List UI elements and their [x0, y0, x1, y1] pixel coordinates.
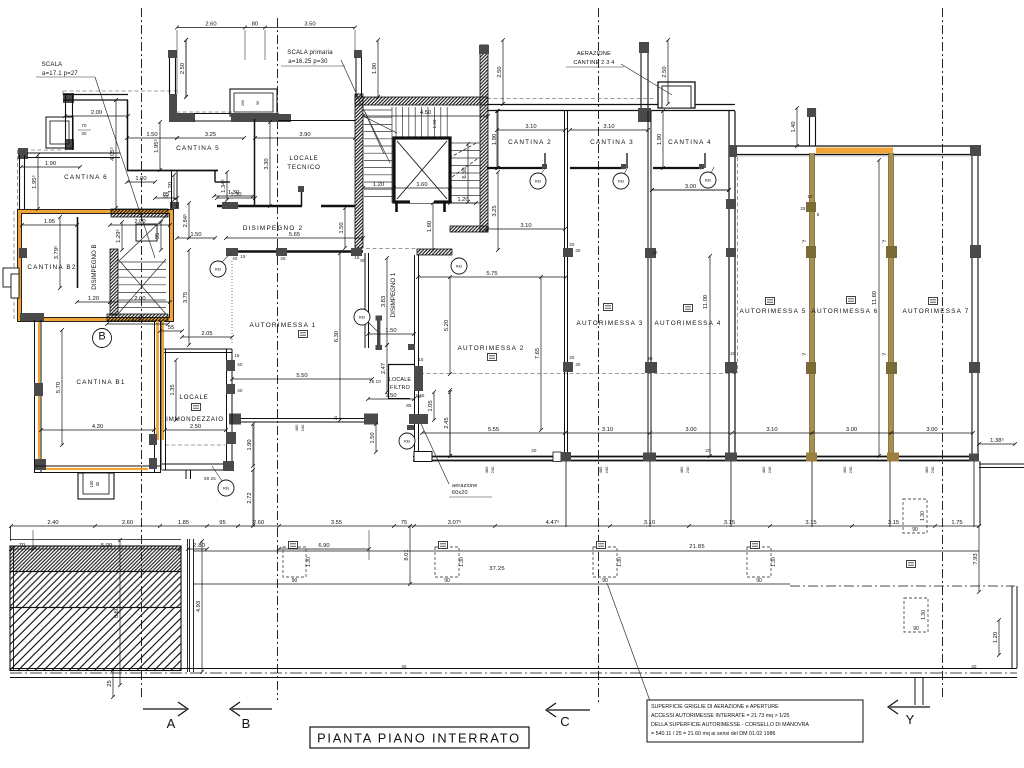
- svg-text:1.29⁵: 1.29⁵: [115, 229, 122, 243]
- grille icon autorimessa7: [929, 298, 938, 305]
- svg-text:3.10: 3.10: [602, 427, 613, 433]
- svg-text:3.79⁵: 3.79⁵: [53, 245, 60, 259]
- wall locale filtro bottom: [388, 398, 410, 400]
- stair treads top flight: [392, 107, 448, 138]
- pillar orange A6 mid1: [806, 246, 816, 258]
- pillar A4 wall upper: [645, 248, 656, 258]
- dim v 1.80 under elevator: [427, 201, 435, 252]
- wall locale filtro top: [388, 364, 414, 366]
- wall A5A6A7 garage top thin: [737, 155, 972, 157]
- svg-text:1.30: 1.30: [920, 511, 926, 521]
- grille icon autorimessa1: [299, 331, 308, 338]
- dim v 6.30 A1: [334, 251, 342, 422]
- svg-text:1.75: 1.75: [132, 318, 143, 324]
- wall immondezzaio right b: [231, 349, 233, 470]
- svg-text:1.30: 1.30: [921, 610, 927, 620]
- wall partition A5 left a: [728, 111, 730, 456]
- dim v 190 c2 small: [495, 109, 499, 170]
- svg-text:20: 20: [531, 448, 537, 453]
- svg-text:2.60: 2.60: [253, 520, 264, 526]
- svg-text:AUTORIMESSA 7: AUTORIMESSA 7: [903, 308, 970, 315]
- wall cantina5 bottom: [127, 170, 218, 172]
- wall cantina5 right lower b: [176, 171, 178, 208]
- dim garage 5.55 chain: [420, 427, 975, 435]
- stair B diagonal a: [118, 259, 166, 314]
- svg-text:LOCALE: LOCALE: [389, 377, 412, 383]
- pillar orange A6 mid2: [806, 362, 816, 374]
- svg-text:7⁵: 7⁵: [802, 239, 807, 244]
- pillar wall left mid: [65, 139, 74, 150]
- pillar immondezzaio right 2: [226, 384, 235, 394]
- dim v 1.90 right immond: [247, 422, 255, 468]
- svg-text:LOCALE: LOCALE: [289, 155, 318, 162]
- wall upper thin over tecnico: [278, 120, 355, 122]
- svg-text:15: 15: [240, 254, 246, 259]
- svg-text:90: 90: [912, 527, 918, 533]
- dashed envelope left upper: [62, 91, 64, 96]
- dim 1.20 elevator right: [448, 197, 478, 205]
- svg-text:B: B: [242, 716, 251, 731]
- pillar immondezzaio corner: [223, 461, 234, 471]
- stair B diagonal b: [118, 259, 166, 314]
- dim 1.38 right: [977, 437, 1017, 446]
- dim v 2.47 filtro: [381, 343, 389, 394]
- svg-text:Y: Y: [906, 712, 915, 727]
- svg-text:1.95⁵: 1.95⁵: [153, 139, 160, 153]
- pillar right of cantina5 wall: [170, 202, 179, 209]
- svg-text:1.90: 1.90: [657, 134, 663, 145]
- wall corridor top right piece: [321, 205, 355, 207]
- dim v 5.60 ramp: [114, 538, 122, 687]
- pillar cantinaB1 right bottom: [149, 458, 157, 469]
- grille icon box1: [439, 542, 448, 549]
- REI circle cantina2: [530, 173, 546, 189]
- svg-text:2.00: 2.00: [91, 110, 102, 116]
- svg-text:1.34⁵: 1.34⁵: [220, 179, 227, 193]
- ramp hatched band 1 (steep dense): [10, 546, 181, 572]
- dim ramp 70/5.00: [9, 543, 182, 551]
- svg-text:1.50: 1.50: [339, 222, 345, 233]
- stair B left wall hatched: [110, 249, 118, 315]
- grille icon autorimessa4: [684, 305, 693, 312]
- elevator shaft U1: [394, 138, 450, 203]
- dashed envelope left side: [17, 150, 19, 209]
- wall garage bottom line2: [413, 460, 979, 462]
- svg-text:11.60: 11.60: [872, 291, 878, 305]
- door block filtro bottom: [409, 414, 428, 424]
- svg-text:240: 240: [604, 466, 609, 473]
- wall locale tecnico bottom: [217, 205, 302, 207]
- dim v 3.25 below stair: [492, 170, 500, 252]
- dim v 1.95 cantina5: [153, 120, 162, 172]
- svg-text:40: 40: [971, 664, 977, 669]
- svg-text:7.65: 7.65: [535, 348, 541, 359]
- dim v 1.29 stairB: [115, 220, 124, 252]
- svg-text:80: 80: [360, 258, 366, 263]
- grille icon box2: [597, 542, 606, 549]
- dim v 1.20 orange corner: [168, 173, 176, 202]
- svg-text:4.93: 4.93: [196, 601, 202, 612]
- svg-text:DELLA SUPERFICIE AUTORIMESSE: DELLA SUPERFICIE AUTORIMESSE - CORSELLO …: [651, 722, 809, 728]
- dim v 3.75 right of B: [183, 248, 191, 347]
- svg-text:C: C: [560, 714, 570, 729]
- dim v 8.01 right of ramp: [404, 524, 412, 586]
- orange line cantinaB1 bottom: [46, 468, 148, 470]
- note box superficie grigle: [647, 700, 863, 742]
- grille icon box3: [751, 542, 760, 549]
- svg-text:21.85: 21.85: [689, 544, 705, 550]
- svg-text:AUTORIMESSA 2: AUTORIMESSA 2: [458, 345, 525, 352]
- svg-text:20: 20: [333, 415, 338, 420]
- svg-text:SUPERFICIE GRIGLIE DI AERAZ: SUPERFICIE GRIGLIE DI AERAZIONE e APERTU…: [651, 704, 779, 710]
- ramp top small line: [10, 539, 181, 541]
- svg-text:2.80: 2.80: [193, 543, 205, 549]
- REI circle corridor right: [451, 258, 467, 274]
- pillar immondezzaio right 3: [226, 432, 236, 444]
- svg-text:3.00: 3.00: [685, 184, 696, 190]
- wall partition A3 left a: [564, 111, 566, 456]
- pillar A4 wall mid: [645, 362, 657, 373]
- svg-text:240: 240: [848, 466, 853, 473]
- block filtro small: [408, 344, 415, 350]
- extension ramp dim x33: [32, 530, 34, 549]
- extension dim top x265: [264, 30, 266, 60]
- svg-text:10: 10: [807, 194, 813, 199]
- wall cantina6 top line1: [63, 94, 128, 96]
- svg-text:1.30: 1.30: [459, 557, 465, 567]
- svg-text:55: 55: [168, 325, 174, 331]
- svg-text:95: 95: [155, 233, 161, 239]
- svg-text:3.25: 3.25: [492, 205, 498, 216]
- svg-text:IMMONDEZZAIO: IMMONDEZZAIO: [166, 416, 224, 423]
- REI leader disimpegnoB: [222, 252, 232, 262]
- pillar top-left corner cantina6: [63, 93, 74, 103]
- svg-text:CANTINA 4: CANTINA 4: [668, 139, 712, 146]
- dim v 1.05 filtro: [428, 390, 436, 422]
- svg-text:CANTINA 3: CANTINA 3: [590, 139, 634, 146]
- stair B cut diagonal: [120, 214, 168, 260]
- pillar cantina5 wall top: [168, 50, 177, 58]
- dim v 11.60 A6: [877, 158, 881, 458]
- wall cantina3 door header: [570, 167, 624, 169]
- aerazione 60x20 underline: [449, 496, 492, 498]
- svg-text:80 25: 80 25: [204, 476, 216, 481]
- dim v 1.34 under c5: [220, 170, 229, 202]
- svg-text:SCALA primaria: SCALA primaria: [287, 50, 333, 56]
- svg-text:1.90: 1.90: [247, 439, 253, 450]
- svg-text:90: 90: [913, 626, 919, 632]
- svg-text:7⁵: 7⁵: [882, 352, 887, 357]
- wall partition A5 left b: [734, 111, 736, 456]
- wall corridor disimpegno2 bottom: [226, 250, 363, 252]
- extension dim top x355: [354, 30, 356, 50]
- svg-text:2.50: 2.50: [662, 66, 668, 77]
- wall garage right b: [977, 156, 979, 461]
- ramp left border b: [13, 546, 15, 670]
- dim 3.00 cantina4b: [650, 188, 731, 192]
- svg-text:15: 15: [354, 255, 360, 260]
- svg-text:3.50: 3.50: [304, 22, 315, 28]
- svg-text:5.65: 5.65: [289, 232, 300, 238]
- grille icon band right: [907, 561, 916, 568]
- svg-text:480: 480: [924, 466, 929, 473]
- svg-text:240: 240: [685, 466, 690, 473]
- svg-text:FILTRO: FILTRO: [390, 385, 410, 391]
- wall cantina4 door header: [653, 167, 702, 169]
- wall immondezzaio top line2: [162, 352, 232, 354]
- svg-text:2.72: 2.72: [247, 492, 253, 503]
- svg-text:40: 40: [280, 256, 286, 261]
- leader scala primaria: [341, 60, 384, 154]
- svg-text:5.00: 5.00: [101, 543, 112, 549]
- svg-text:CANTINA 5: CANTINA 5: [176, 145, 220, 152]
- svg-text:TECNICO: TECNICO: [287, 164, 320, 171]
- wall cantinaB1 left a: [34, 320, 36, 473]
- door hinge block c3: [621, 164, 626, 169]
- svg-text:DISIMPEGNO 1: DISIMPEGNO 1: [390, 272, 397, 317]
- svg-text:1.85: 1.85: [178, 520, 189, 526]
- svg-text:5.60: 5.60: [114, 607, 120, 618]
- svg-text:15: 15: [418, 357, 424, 362]
- section line C (dash-dot): [598, 8, 600, 705]
- label circle B: [93, 329, 112, 348]
- svg-text:30: 30: [647, 356, 653, 361]
- dim 4.30 cantinaB1: [39, 424, 156, 432]
- pillar locale tecnico inner top: [298, 186, 304, 192]
- dim 1.50 filtro: [366, 393, 416, 401]
- svg-text:3.15: 3.15: [805, 520, 816, 526]
- dim 3.00 cantina4: [650, 184, 731, 192]
- elevator door jamb left: [395, 203, 398, 212]
- door stub cantina2: [544, 153, 546, 168]
- wall cantina6 left a: [19, 155, 21, 209]
- svg-text:240: 240: [490, 466, 495, 473]
- pillar orange A6 upper: [806, 202, 816, 212]
- window boxes left wall B2: [3, 268, 19, 298]
- dim 2.50 immondezzaio: [163, 424, 228, 432]
- svg-text:6.50: 6.50: [462, 167, 468, 178]
- dim 2.05: [180, 331, 234, 339]
- pillar top right wall left: [729, 145, 737, 157]
- svg-text:AUTORIMESSA 1: AUTORIMESSA 1: [250, 322, 317, 329]
- extension partition A3 below wall: [565, 461, 567, 527]
- svg-text:90: 90: [256, 101, 260, 105]
- svg-text:a=16.25 p=30: a=16.25 p=30: [288, 59, 328, 65]
- dim v 3.79 B2: [53, 215, 62, 290]
- orange line cantinaB1 left: [38, 322, 40, 466]
- wall autorimessa1 right a: [364, 253, 366, 348]
- svg-text:80: 80: [252, 22, 258, 28]
- dim v 11.00 line A5: [708, 254, 712, 458]
- pillar duct bottom: [638, 108, 651, 122]
- pillar A3 wall mid: [563, 362, 573, 372]
- dim 1.20/1.60 elevator: [361, 182, 452, 190]
- dashed envelope across garage: [420, 373, 737, 375]
- ramp right wall c: [193, 539, 195, 672]
- wall cantina6 upper line2: [27, 157, 120, 159]
- door hinge block c4: [699, 164, 704, 169]
- svg-text:1.05: 1.05: [428, 400, 434, 411]
- wall immondezzaio right a: [226, 349, 228, 470]
- svg-text:1.75: 1.75: [951, 520, 962, 526]
- wall locale tecnico left: [254, 116, 256, 206]
- intercapedine inner box: [234, 93, 273, 112]
- grille box 2: [593, 547, 623, 584]
- dim v 1.90 cantina4: [657, 109, 665, 170]
- dim 2.00 stairB top: [108, 219, 172, 227]
- svg-text:25: 25: [107, 680, 113, 686]
- wall cantina5 right lower a: [171, 171, 173, 208]
- REI circle disimpegno1: [354, 309, 370, 325]
- dim 3.10 A2 top: [485, 223, 567, 231]
- dim v 1.50 corridor right: [339, 206, 347, 250]
- svg-text:200: 200: [241, 100, 245, 106]
- extension partition A4 below wall: [649, 461, 651, 527]
- leader note box to grille: [607, 583, 650, 701]
- wall garage bottom line1: [413, 456, 979, 458]
- dim 5.65 disimpegno2: [224, 232, 365, 240]
- svg-text:5.70: 5.70: [56, 382, 62, 393]
- svg-text:2.40: 2.40: [47, 520, 58, 526]
- wall dark top cantina5 left: [169, 94, 177, 122]
- road bottom line: [10, 677, 1017, 679]
- svg-text:8.01: 8.01: [404, 549, 410, 560]
- svg-text:3.83: 3.83: [381, 296, 387, 307]
- svg-text:REI: REI: [705, 179, 711, 183]
- wall locale tecnico inner: [301, 188, 303, 206]
- pillar garage bottom A6 (tan): [806, 453, 817, 462]
- wall right below: [979, 461, 981, 526]
- dim v 4.05 scala: [109, 98, 118, 210]
- svg-text:240: 240: [930, 466, 935, 473]
- dim 1.95 B2: [20, 219, 79, 227]
- pillar garage bottom A3 (half dark): [553, 452, 571, 462]
- door stub cantina3: [626, 153, 628, 168]
- dim v 1.35 immondezzaio: [170, 358, 178, 422]
- svg-text:30: 30: [652, 250, 658, 255]
- ramp hatched band 2 (middle): [10, 572, 181, 608]
- svg-text:REI: REI: [618, 180, 624, 184]
- svg-text:25 10: 25 10: [369, 379, 381, 384]
- svg-text:7⁵: 7⁵: [882, 239, 887, 244]
- grille box right upper: [903, 499, 927, 533]
- grille icon immondezzaio: [192, 404, 201, 411]
- orange line cantinaB1 right upper: [156, 321, 159, 440]
- svg-text:240: 240: [767, 466, 772, 473]
- svg-text:2.45: 2.45: [444, 417, 450, 428]
- svg-text:3.10: 3.10: [644, 520, 655, 526]
- stairwell top wall hatched: [355, 97, 488, 105]
- dim 1.30 tecnico: [215, 192, 257, 200]
- wall immondezzaio bottom line1: [162, 463, 232, 465]
- extension dim top x245: [244, 30, 246, 60]
- svg-text:85: 85: [406, 403, 412, 408]
- svg-text:1.40: 1.40: [791, 121, 797, 132]
- pillar orange block bottom-left: [20, 313, 44, 321]
- pillar corridor mid: [276, 248, 287, 256]
- leader aerazione cantine: [621, 64, 672, 95]
- REI circle immondezzaio: [218, 480, 234, 496]
- pillar stair left top: [354, 50, 362, 58]
- svg-text:480: 480: [598, 466, 603, 473]
- svg-text:4.30: 4.30: [92, 424, 103, 430]
- pillar garage bottom right corner: [969, 454, 979, 462]
- dim v 25 bottom: [107, 668, 115, 699]
- svg-text:1.50: 1.50: [385, 393, 396, 399]
- dim 2.00 stairB bottom2: [108, 296, 172, 304]
- pillar cantinaB1 right mid: [149, 434, 157, 445]
- REI leader immondezzaio: [212, 466, 222, 481]
- light-shaft box outer: [46, 117, 73, 148]
- wall cantina5-6 divider: [127, 100, 129, 170]
- svg-text:2.60: 2.60: [122, 520, 133, 526]
- svg-text:1.20: 1.20: [373, 182, 384, 188]
- dim 1.30 A1 top: [212, 190, 255, 198]
- svg-text:5.75: 5.75: [486, 271, 497, 277]
- dim v 2.50 duct left: [497, 38, 505, 106]
- svg-text:3.30: 3.30: [264, 158, 270, 169]
- dash-dot extension right: [790, 585, 1015, 587]
- door stub cantina4: [704, 153, 706, 168]
- wall locale filtro left: [388, 364, 390, 398]
- svg-text:75: 75: [401, 520, 407, 526]
- svg-text:11.00: 11.00: [703, 295, 709, 309]
- svg-text:3.10: 3.10: [603, 124, 614, 130]
- driveway verticals right: [915, 677, 923, 705]
- svg-text:3.55: 3.55: [331, 520, 342, 526]
- dim v 1.20 bottom right: [993, 618, 1001, 657]
- pillar locale tecnico bottom: [222, 202, 238, 209]
- svg-text:2.60: 2.60: [205, 22, 216, 28]
- road centerline dash-dot: [10, 672, 1017, 674]
- pillar orange A7 mid1: [886, 246, 897, 258]
- svg-text:30: 30: [95, 481, 100, 486]
- svg-text:1.45: 1.45: [415, 393, 425, 398]
- extension 2.72 line: [253, 424, 255, 527]
- dim 1.20 stairB bottom: [75, 296, 112, 304]
- svg-text:CANTINA 2: CANTINA 2: [508, 139, 552, 146]
- svg-text:90: 90: [292, 578, 298, 584]
- svg-text:240: 240: [300, 424, 305, 431]
- pillar cantinaB1 left bottom: [35, 459, 46, 470]
- svg-text:20: 20: [730, 351, 736, 356]
- svg-text:1.30: 1.30: [617, 557, 623, 567]
- block wall a2 low: [407, 425, 414, 430]
- extension 6.90 x369: [368, 530, 370, 560]
- REI door circle disimpegnoB: [210, 261, 226, 277]
- svg-text:3.90: 3.90: [299, 132, 310, 138]
- dim 5.75: [416, 271, 568, 279]
- svg-text:3.10: 3.10: [766, 427, 777, 433]
- svg-text:1.20: 1.20: [88, 296, 99, 302]
- dashed envelope immondezzaio: [165, 444, 225, 446]
- wall cantina5 upper a: [169, 58, 171, 94]
- dim 6.90: [277, 543, 371, 551]
- svg-text:a=17.1 p=27: a=17.1 p=27: [42, 71, 78, 77]
- pillar A1 door left: [229, 414, 241, 425]
- dim bottom chain: [9, 519, 981, 528]
- svg-text:15: 15: [234, 353, 240, 358]
- orange wall bar top right: [816, 148, 893, 154]
- pillar garage right mid2: [969, 362, 980, 373]
- pillar A3 wall upper: [563, 248, 573, 257]
- section arrow Y: [888, 700, 930, 714]
- svg-text:3.15: 3.15: [888, 520, 899, 526]
- dim v 1.40 A5 duct: [791, 106, 799, 148]
- wall dark cantina5 top segment: [169, 113, 195, 122]
- svg-text:90: 90: [444, 578, 450, 584]
- pillar garage bottom A4: [643, 453, 656, 462]
